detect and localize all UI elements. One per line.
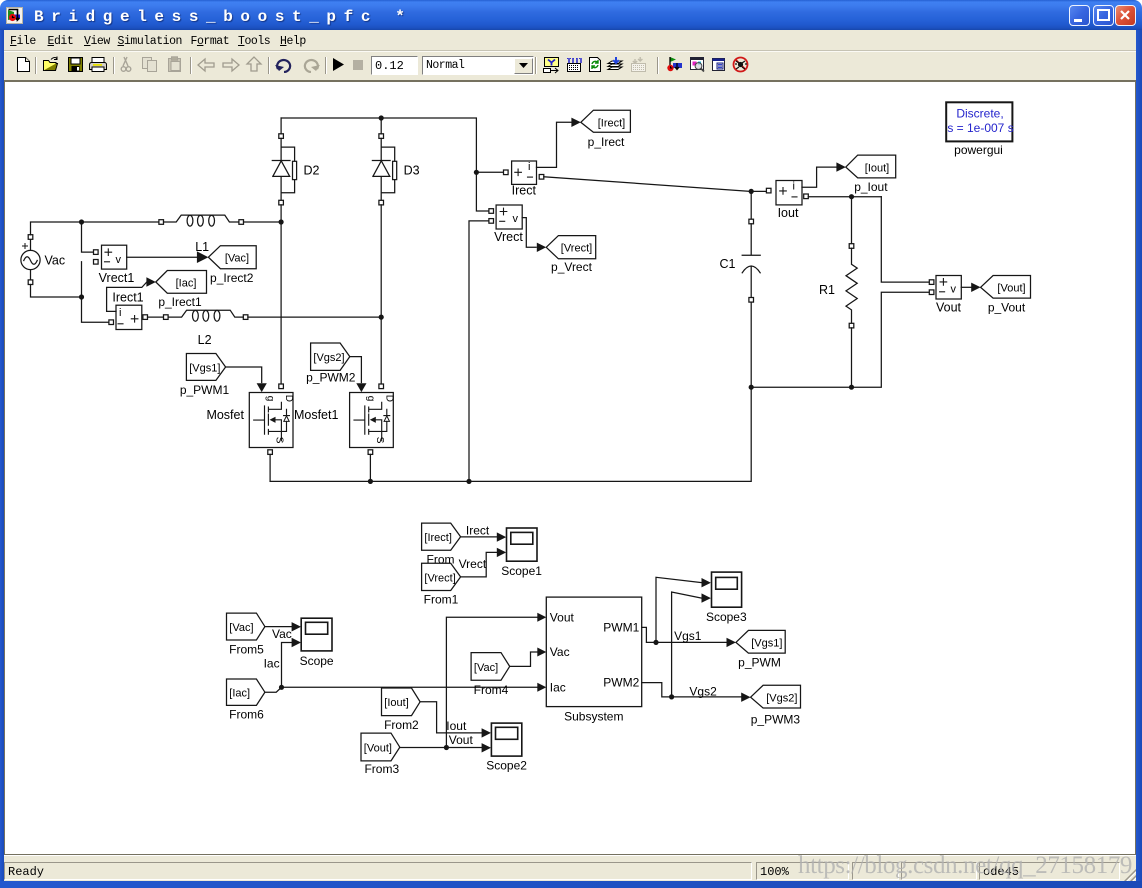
svg-text:[Vout]: [Vout] xyxy=(364,743,392,755)
svg-text:Subsystem: Subsystem xyxy=(564,709,623,723)
voltage measurement Vout xyxy=(929,276,961,300)
wire Vgs1 to Mosfet gate xyxy=(226,367,262,383)
wire D2 to Mosfet drain xyxy=(280,205,282,384)
from tag [Iout] (From2) xyxy=(382,688,421,716)
wire Irect1 to L2 xyxy=(148,316,164,318)
svg-text:p_PWM: p_PWM xyxy=(738,656,781,670)
node junction C1 bottom xyxy=(749,385,754,390)
svg-text:[Iout]: [Iout] xyxy=(384,697,408,709)
wire top to Vout sense xyxy=(881,197,929,282)
svg-text:Vrect1: Vrect1 xyxy=(99,271,135,285)
goto tag [Iac] xyxy=(156,271,207,294)
svg-text:i: i xyxy=(528,161,530,173)
svg-text:v: v xyxy=(951,284,957,296)
wire Vac- xyxy=(31,285,82,298)
wire Vgs2 to Mosfet1 gate xyxy=(350,357,362,383)
from tag [Vgs2] xyxy=(311,343,350,370)
node junction R1 bottom xyxy=(849,385,854,390)
svg-text:Vac: Vac xyxy=(45,254,66,268)
arrowhead Scope2 in2 xyxy=(482,743,491,752)
resize grip xyxy=(1122,866,1140,883)
voltage measurement Vrect1 xyxy=(94,245,127,269)
from tag [Vac] (From4) xyxy=(471,653,510,681)
svg-text:D: D xyxy=(283,395,294,402)
svg-text:Vac: Vac xyxy=(550,645,570,659)
svg-text:Irect: Irect xyxy=(512,184,537,198)
node junction Iac xyxy=(279,685,284,690)
arrowhead gate Mosfet1 xyxy=(356,383,366,392)
svg-text:[Iout]: [Iout] xyxy=(865,163,889,175)
diode D3 with snubber xyxy=(372,118,396,205)
wire Iout minus out xyxy=(808,196,881,198)
wire Irect1 i out xyxy=(107,282,147,311)
goto tag [Vgs1] xyxy=(736,630,785,653)
arrowhead into [Irect] xyxy=(571,118,580,127)
svg-text:S: S xyxy=(274,437,285,444)
arrowhead Subsystem Iac xyxy=(537,683,546,692)
svg-text:Vout: Vout xyxy=(936,301,962,315)
scope Scope xyxy=(301,618,332,651)
svg-text:Iout: Iout xyxy=(778,206,799,220)
from tag [Vrect] (From1) xyxy=(422,563,461,590)
wire PWM1 to Vgs1 xyxy=(642,627,727,642)
svg-text:Vout: Vout xyxy=(449,733,474,747)
svg-text:p_Irect: p_Irect xyxy=(588,135,625,149)
svg-text:[Vac]: [Vac] xyxy=(229,622,253,634)
svg-text:p_Iout: p_Iout xyxy=(854,180,888,194)
svg-text:D3: D3 xyxy=(404,164,420,178)
wire Iac long to Subsystem xyxy=(265,687,538,692)
svg-text:Vout: Vout xyxy=(550,610,575,624)
svg-text:Scope3: Scope3 xyxy=(706,610,747,624)
arrowhead into [Iac] xyxy=(146,277,155,286)
wire Vrect to Scope1 xyxy=(461,552,497,577)
svg-text:p_Vout: p_Vout xyxy=(988,301,1026,315)
arrowhead Scope in2 xyxy=(292,638,301,647)
wire Iac up to Scope xyxy=(282,643,292,688)
svg-text:R1: R1 xyxy=(819,283,835,297)
svg-text:PWM2: PWM2 xyxy=(603,676,639,690)
resistor R1 xyxy=(846,197,857,388)
svg-text:Irect: Irect xyxy=(466,523,490,537)
wire L1 to D2 leg xyxy=(244,221,282,223)
wire Vrect1 - / Irect1 - xyxy=(82,262,109,322)
svg-text:[Vgs2]: [Vgs2] xyxy=(766,693,797,705)
goto tag [Irect] xyxy=(581,110,631,132)
wire Mosfet1 source to rail xyxy=(369,454,371,481)
svg-text:From4: From4 xyxy=(474,683,509,697)
wire Iout i out xyxy=(802,167,836,187)
wire Iout to Scope2 xyxy=(420,702,482,733)
node junction top-left xyxy=(79,219,84,224)
svg-text:[Vrect]: [Vrect] xyxy=(424,572,455,584)
node junction PWM2 xyxy=(669,694,674,699)
svg-text:[Vrect]: [Vrect] xyxy=(561,243,592,255)
node junction rail Mosfet1 xyxy=(368,479,373,484)
arrowhead Subsystem Vout xyxy=(537,613,546,622)
wire to Vrect1 + xyxy=(82,222,94,252)
top bus wire xyxy=(281,118,503,211)
arrowhead Scope in1 xyxy=(292,622,301,631)
arrowhead into [Vrect] xyxy=(537,243,546,252)
svg-text:v: v xyxy=(116,254,122,266)
svg-text:[Iac]: [Iac] xyxy=(229,688,250,700)
node junction PWM1 xyxy=(653,640,658,645)
arrowhead into [Iout] xyxy=(836,162,845,171)
svg-text:p_PWM1: p_PWM1 xyxy=(180,383,230,397)
from tag [Vout] (From3) xyxy=(361,733,400,761)
wire into Iout xyxy=(751,190,766,192)
svg-text:[Vac]: [Vac] xyxy=(474,662,498,674)
arrowhead Scope3 in1 xyxy=(702,578,711,587)
arrowhead into [Vgs1] xyxy=(727,638,736,647)
arrowhead Scope1 in1 xyxy=(497,532,506,541)
svg-text:Vgs1: Vgs1 xyxy=(674,629,702,643)
wire PWM2 to Vgs2 xyxy=(642,683,742,697)
svg-text:s = 1e-007 s: s = 1e-007 s xyxy=(947,121,1013,135)
inductor L1 xyxy=(159,215,244,226)
goto tag [Iout] xyxy=(846,155,896,178)
from tag [Vac] (From5) xyxy=(227,613,265,640)
wire Irect i out xyxy=(537,122,572,167)
svg-text:S: S xyxy=(374,437,385,444)
wire Vac+ to L1 xyxy=(31,222,159,235)
svg-text:Scope: Scope xyxy=(300,654,334,668)
svg-text:Iout: Iout xyxy=(446,719,467,733)
arrowhead into [Vac] xyxy=(197,251,209,263)
AC voltage source Vac xyxy=(21,235,40,285)
powergui block xyxy=(946,102,1013,141)
goto tag [Vrect] xyxy=(546,236,596,259)
from tag [Iac] (From6) xyxy=(227,679,265,705)
svg-text:Vrect: Vrect xyxy=(494,230,523,244)
svg-text:Vrect: Vrect xyxy=(459,557,487,571)
svg-text:[Iac]: [Iac] xyxy=(176,277,197,289)
current measurement Irect xyxy=(504,161,544,185)
svg-text:Scope1: Scope1 xyxy=(501,564,542,578)
scope Scope2 xyxy=(491,723,521,756)
wire Vrect - sense xyxy=(469,221,489,482)
wire Vac to Scope xyxy=(265,626,292,628)
svg-text:L2: L2 xyxy=(198,333,212,347)
svg-text:i: i xyxy=(793,180,795,192)
node junction Vac- xyxy=(79,294,84,299)
svg-text:p_PWM2: p_PWM2 xyxy=(306,371,356,385)
svg-text:Discrete,: Discrete, xyxy=(956,107,1003,121)
svg-text:Mosfet: Mosfet xyxy=(206,408,244,422)
wire Mosfet source to rail xyxy=(269,454,271,481)
node junction C1 top xyxy=(749,189,754,194)
mosfet Mosfet xyxy=(249,384,294,454)
arrowhead into [Vgs2] xyxy=(741,693,750,702)
svg-text:g: g xyxy=(365,396,376,402)
svg-text:[Vgs1]: [Vgs1] xyxy=(751,638,782,650)
svg-text:Vac: Vac xyxy=(272,627,292,641)
wire PWM1 up to Scope3 xyxy=(656,577,701,642)
node junction Vout net xyxy=(444,745,449,750)
svg-text:Scope2: Scope2 xyxy=(486,759,527,773)
svg-text:p_Vrect: p_Vrect xyxy=(551,260,593,274)
node junction D2 leg xyxy=(279,219,284,224)
svg-text:From6: From6 xyxy=(229,708,264,722)
arrowhead Scope3 in2 xyxy=(702,593,711,602)
svg-text:D: D xyxy=(383,395,394,402)
inductor L2 xyxy=(164,310,248,321)
wire Irect minus diagonal to Iout xyxy=(544,177,751,192)
node junction rail Vrect- xyxy=(466,479,471,484)
svg-text:p_Irect1: p_Irect1 xyxy=(158,295,202,309)
svg-text:i: i xyxy=(119,307,121,319)
app icon xyxy=(6,7,23,24)
svg-text:[Irect]: [Irect] xyxy=(598,118,626,130)
current measurement Irect1 xyxy=(109,305,148,329)
node junction L2/D3 xyxy=(379,315,384,320)
svg-text:powergui: powergui xyxy=(954,143,1003,157)
voltage measurement Vrect xyxy=(489,205,522,229)
wire Irect to Scope1 xyxy=(461,536,497,538)
subsystem block Subsystem xyxy=(546,597,641,707)
svg-text:PWM1: PWM1 xyxy=(603,621,639,635)
wire PWM2 up to Scope3 xyxy=(672,592,701,697)
svg-text:g: g xyxy=(265,396,276,402)
svg-text:[Vgs2]: [Vgs2] xyxy=(313,352,344,364)
arrowhead Subsystem Vac xyxy=(537,648,546,657)
from tag [Vgs1] xyxy=(186,354,225,381)
wire Vrect v out xyxy=(522,218,536,248)
svg-text:[Irect]: [Irect] xyxy=(424,532,452,544)
svg-text:[Vac]: [Vac] xyxy=(225,253,249,265)
svg-text:v: v xyxy=(513,213,519,225)
svg-text:Iac: Iac xyxy=(550,681,566,695)
svg-text:p_PWM3: p_PWM3 xyxy=(751,712,801,726)
arrowhead gate Mosfet xyxy=(257,383,267,392)
goto tag [Vout] xyxy=(981,276,1031,299)
svg-text:L1: L1 xyxy=(195,240,209,254)
svg-text:From1: From1 xyxy=(424,592,459,606)
svg-text:D2: D2 xyxy=(304,164,320,178)
svg-text:From2: From2 xyxy=(384,718,419,732)
wire L2 to D3 leg xyxy=(248,316,381,318)
wire Vac to Subsystem xyxy=(510,652,538,666)
svg-text:p_Irect2: p_Irect2 xyxy=(210,271,254,285)
wire bottom to Vout sense xyxy=(751,292,929,387)
wire bottom rail xyxy=(270,387,751,481)
wire Vout v out xyxy=(961,286,971,288)
svg-text:From3: From3 xyxy=(364,762,399,776)
mosfet Mosfet1 xyxy=(350,384,395,454)
goto tag [Vac] xyxy=(208,246,256,269)
goto tag [Vgs2] xyxy=(751,685,801,708)
TOOLBAR ICONS xyxy=(0,0,1142,1)
svg-text:[Vout]: [Vout] xyxy=(997,283,1025,295)
svg-text:Vgs2: Vgs2 xyxy=(689,684,717,698)
arrowhead into [Vout] xyxy=(971,283,980,292)
wire D3 to Mosfet1 drain xyxy=(380,205,382,384)
wire Vout net vertical to Subsystem xyxy=(446,617,537,747)
from tag [Irect] (From) xyxy=(422,523,461,550)
node junction Irect tap xyxy=(474,170,479,175)
capacitor C1 xyxy=(742,191,760,387)
svg-text:Iac: Iac xyxy=(264,657,280,671)
node junction top bus D3 xyxy=(379,115,384,120)
wire Vout to Scope2 and up xyxy=(400,747,482,749)
scope Scope1 xyxy=(507,528,538,561)
arrowhead Scope2 in1 xyxy=(482,728,491,737)
svg-text:From5: From5 xyxy=(229,643,264,657)
current measurement Iout xyxy=(766,180,808,205)
scope Scope3 xyxy=(712,572,742,607)
svg-text:Mosfet1: Mosfet1 xyxy=(294,408,339,422)
svg-text:[Vgs1]: [Vgs1] xyxy=(189,362,220,374)
diode D2 with snubber xyxy=(272,118,296,205)
svg-text:Irect1: Irect1 xyxy=(112,291,143,305)
svg-text:C1: C1 xyxy=(720,257,736,271)
arrowhead Scope1 in2 xyxy=(497,548,506,557)
wire Vrect1 v out xyxy=(127,256,197,258)
node junction R1 top xyxy=(849,194,854,199)
